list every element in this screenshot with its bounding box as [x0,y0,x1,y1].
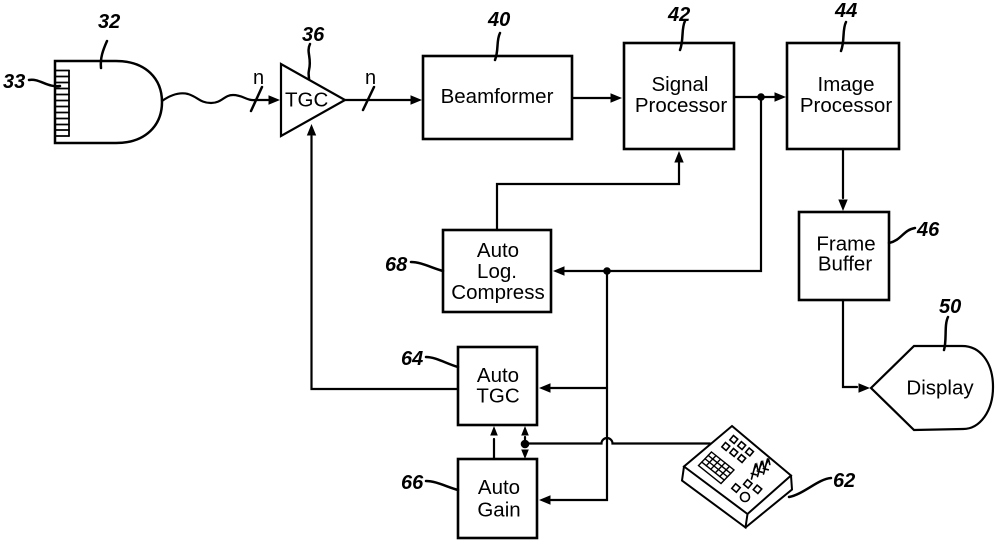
svg-text:Gain: Gain [477,499,520,522]
wire branch to Auto TGC [551,387,607,389]
amplifier TGC 36 [281,64,345,136]
block Frame Buffer 46 [799,212,889,300]
wire Signal Processor to Image Processor [734,96,774,98]
wire Auto TGC to TGC triangle [312,136,459,389]
wire Beamformer to Signal Processor [572,97,610,99]
transducer probe 32 [55,61,162,143]
block Auto Log Compress 68 [443,230,551,312]
wire junction to Auto Log Compress [565,97,761,271]
svg-text:Auto: Auto [478,476,520,499]
wire Frame Buffer to Display [843,300,857,387]
junction dot [603,267,611,275]
svg-text:62: 62 [833,470,855,492]
svg-text:33: 33 [3,71,25,93]
label 66 leader [426,481,458,490]
label 44 leader [841,22,846,51]
svg-text:Image: Image [818,73,875,96]
wire TGC to Beamformer [345,99,410,101]
junction dot [521,440,530,449]
svg-text:32: 32 [98,11,120,33]
svg-text:64: 64 [401,348,423,370]
wire vertical to Auto Gain [551,271,607,500]
svg-text:68: 68 [385,254,408,276]
svg-text:40: 40 [487,9,510,31]
block Image Processor 44 [787,43,899,149]
label 64 leader [426,357,458,367]
svg-text:Signal: Signal [652,73,709,96]
svg-text:Beamformer: Beamformer [441,85,554,108]
label 40 leader [495,33,500,60]
svg-text:Processor: Processor [635,94,727,117]
bus slash n input [251,87,262,111]
svg-text:Log.: Log. [477,260,517,283]
svg-text:Processor: Processor [800,94,892,117]
wire double arrow Auto TGC Auto Gain [524,437,526,447]
block Auto Gain 66 [458,459,537,538]
svg-text:44: 44 [834,0,857,22]
svg-text:Auto: Auto [477,239,519,262]
label 68 leader [411,262,443,271]
svg-text:TGC: TGC [285,89,328,112]
label 32 leader [101,41,107,68]
svg-text:50: 50 [939,296,961,318]
svg-text:Display: Display [906,377,974,400]
junction dot [757,93,765,101]
transducer array 33 hatched strip [55,71,69,137]
wire Auto Gain to Auto TGC [493,439,495,459]
svg-text:Compress: Compress [451,281,544,304]
label 46 leader [889,228,915,243]
svg-text:n: n [253,67,264,89]
wire junction to keyboard with hop [525,438,710,443]
svg-text:66: 66 [401,472,424,494]
display 50 [871,346,993,430]
wire Auto Log Compress to Signal Processor [497,163,679,230]
svg-text:TGC: TGC [476,385,519,408]
label 36 leader [309,44,310,79]
svg-text:42: 42 [667,4,690,26]
svg-text:36: 36 [302,24,325,46]
wire Image Processor to Frame Buffer [842,149,844,198]
label 62 leader [789,478,831,497]
label 42 leader [680,21,685,50]
svg-text:Buffer: Buffer [818,253,872,276]
label 33 leader [29,80,60,87]
label 50 leader [944,317,948,350]
keyboard console 62 [682,426,792,528]
wire cable probe to TGC [162,93,268,103]
block Signal Processor 42 [624,43,734,149]
block Beamformer 40 [423,56,572,139]
svg-text:n: n [365,67,376,89]
svg-text:46: 46 [916,219,940,241]
bus slash n output [363,87,374,110]
block Auto TGC 64 [458,347,537,425]
